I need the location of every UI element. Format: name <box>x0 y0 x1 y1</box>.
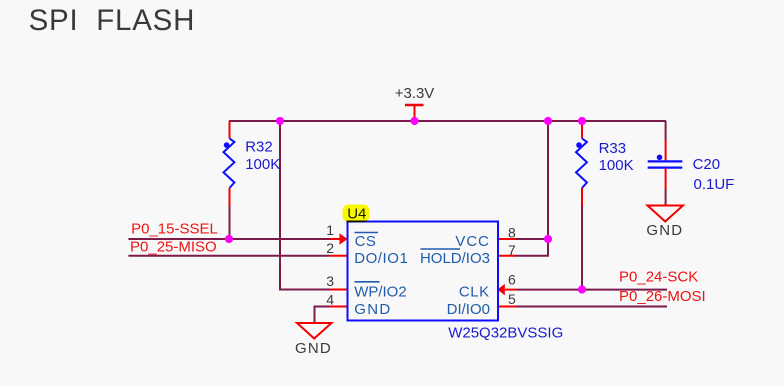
label C20 <box>693 156 721 173</box>
wire net SSEL to pin 1 <box>128 238 340 240</box>
value 100K (R32) <box>245 156 280 173</box>
pin name CLK (pin 6) <box>459 284 490 301</box>
svg-text:P0_26-MOSI: P0_26-MOSI <box>619 288 706 305</box>
pin number 6 <box>508 272 516 288</box>
svg-text:P0_15-SSEL: P0_15-SSEL <box>131 221 218 238</box>
pin number 1 <box>326 222 334 238</box>
svg-text:CS: CS <box>355 233 377 250</box>
pin 4 stub <box>330 306 348 308</box>
svg-text:W25Q32BVSSIG: W25Q32BVSSIG <box>448 324 563 341</box>
wire R32 bottom to SSEL net <box>229 206 231 239</box>
svg-text:6: 6 <box>508 272 516 288</box>
pin number 8 <box>508 225 516 241</box>
svg-text:GND: GND <box>354 301 391 318</box>
net label P0_25-MISO <box>130 238 217 255</box>
svg-text:4: 4 <box>326 291 334 307</box>
svg-text:P0_25-MISO: P0_25-MISO <box>130 238 217 255</box>
pin name VCC (pin 8) <box>455 233 489 250</box>
svg-text:GND: GND <box>646 222 683 239</box>
svg-text:3: 3 <box>326 273 334 289</box>
svg-text:CLK: CLK <box>459 284 490 301</box>
svg-text:C20: C20 <box>693 156 721 173</box>
wire net MISO to pin 2 <box>128 255 330 257</box>
junction dot +3.3V <box>410 117 418 125</box>
title SPI FLASH <box>29 4 196 37</box>
ground (pin 4) <box>295 323 332 357</box>
junction dot R33 top <box>578 117 586 125</box>
value 0.1UF <box>694 176 735 193</box>
svg-text:5: 5 <box>508 291 516 307</box>
net label P0_15-SSEL <box>131 221 218 238</box>
part number W25Q32BVSSIG <box>448 324 563 341</box>
svg-text:VCC: VCC <box>455 233 489 250</box>
svg-text:SPI FLASH: SPI FLASH <box>29 4 196 37</box>
svg-text:R33: R33 <box>599 140 627 157</box>
wire top rail corner down to C20 <box>665 121 667 140</box>
svg-text:100K: 100K <box>599 157 634 174</box>
wire net to pin 3 <box>280 121 331 290</box>
pin number 4 <box>326 291 334 307</box>
power +3.3V <box>395 85 435 121</box>
svg-text:DI/IO0: DI/IO0 <box>447 301 490 318</box>
pin name DO/IO1 (pin 2) <box>354 250 408 267</box>
svg-text:7: 7 <box>508 242 516 258</box>
pin 1 input arrow <box>340 233 348 244</box>
pin 8 stub <box>498 238 517 240</box>
net label P0_24-SCK <box>619 269 698 286</box>
pin name GND (pin 4) <box>354 301 391 318</box>
junction dot R33 / SCK <box>578 285 586 293</box>
svg-text:1: 1 <box>326 222 334 238</box>
svg-text:P0_24-SCK: P0_24-SCK <box>619 269 698 286</box>
wire VCC drop to pins 8/7 <box>547 121 549 239</box>
pin number 5 <box>508 291 516 307</box>
pin name DI/IO0 (pin 5) <box>447 301 490 318</box>
pin number 3 <box>326 273 334 289</box>
pin 2 stub <box>330 255 348 257</box>
pin 3 stub <box>330 289 348 291</box>
wire net SCK from pin 6 <box>516 289 667 291</box>
net label P0_26-MOSI <box>619 288 706 305</box>
pin number 7 <box>508 242 516 258</box>
junction dot R32 / SSEL <box>225 235 233 243</box>
svg-text:WP/IO2: WP/IO2 <box>354 284 407 301</box>
junction dot VCC drop <box>544 117 552 125</box>
wire pin 8 to VCC <box>516 238 548 240</box>
svg-text:+3.3V: +3.3V <box>395 85 435 102</box>
svg-text:R32: R32 <box>245 139 273 156</box>
wire pin 7 to VCC <box>515 240 548 256</box>
svg-text:100K: 100K <box>245 156 280 173</box>
chip U4 body <box>348 222 499 321</box>
svg-text:DO/IO1: DO/IO1 <box>354 250 408 267</box>
svg-text:2: 2 <box>326 240 334 256</box>
pin name HOLD/IO3 (pin 7) <box>420 249 490 267</box>
pin 5 stub <box>498 306 516 308</box>
junction dot top rail / pin3 net <box>276 117 284 125</box>
pin name CS (pin 1) <box>355 233 379 251</box>
label R33 <box>599 140 627 157</box>
value 100K (R33) <box>599 157 634 174</box>
junction dot pin 8 / VCC <box>544 235 552 243</box>
svg-text:GND: GND <box>295 340 332 357</box>
wire pin 4 to ground <box>315 307 331 323</box>
pin name WP/IO2 (pin 3) <box>354 282 407 301</box>
svg-text:8: 8 <box>508 225 516 241</box>
svg-text:HOLD/IO3: HOLD/IO3 <box>420 250 490 267</box>
ground (C20) <box>646 206 683 240</box>
wire VCC top rail <box>229 120 666 122</box>
pin 6 input arrow <box>497 284 515 295</box>
wire net MOSI from pin 5 <box>515 306 667 308</box>
pin 7 stub <box>498 255 516 257</box>
label R32 <box>245 139 273 156</box>
designator U4 highlight <box>343 205 370 223</box>
wire R33 bottom to SCK net <box>581 206 583 290</box>
capacitor C20 <box>648 140 683 205</box>
pin number 2 <box>326 240 334 256</box>
resistor R33 <box>576 121 587 206</box>
resistor R32 <box>224 121 235 206</box>
svg-text:0.1UF: 0.1UF <box>694 176 735 193</box>
